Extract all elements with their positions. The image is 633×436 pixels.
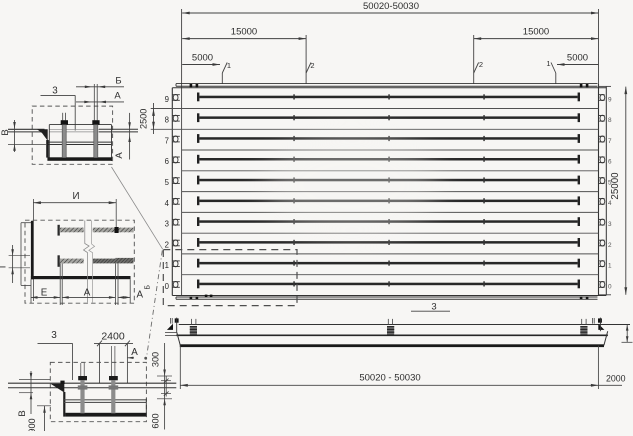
detail-1 rail lines left xyxy=(8,129,45,132)
plan right outer top tick xyxy=(599,85,612,87)
svg-text:1: 1 xyxy=(227,61,231,70)
svg-text:4: 4 xyxy=(165,199,170,208)
left edge tab row 6 xyxy=(172,157,180,163)
svg-text:В: В xyxy=(0,129,11,135)
detail-И dim А (middle) xyxy=(62,287,115,298)
svg-text:Г: Г xyxy=(0,263,9,268)
svg-text:7: 7 xyxy=(608,138,612,145)
svg-text:4: 4 xyxy=(608,200,612,207)
label 3 under plan xyxy=(411,302,450,313)
detail-1 left wedge xyxy=(37,129,49,157)
detail-2400 dim 900 (left) xyxy=(27,406,51,434)
left row number 9 xyxy=(165,95,169,104)
leader from detail A to callout xyxy=(112,167,163,249)
svg-text:3: 3 xyxy=(52,86,58,97)
right row number 3 xyxy=(608,221,612,228)
left edge tab row 9 xyxy=(172,94,180,100)
svg-text:А: А xyxy=(137,289,144,300)
detail-И left outline column xyxy=(21,223,31,286)
svg-text:0: 0 xyxy=(608,283,612,290)
right edge tab row 5 xyxy=(599,178,605,184)
svg-text:15000: 15000 xyxy=(523,27,549,38)
plan right border xyxy=(598,84,600,296)
section left end fitting xyxy=(167,318,179,332)
left edge tab row 0 xyxy=(172,281,180,287)
detail-1 beam body xyxy=(48,125,112,161)
detail-1 dim В (left) xyxy=(0,120,46,152)
row separator line 3 xyxy=(182,149,599,151)
detail-2400 base plate (thick) xyxy=(65,413,146,417)
lifting bolt marks on bottom band xyxy=(190,295,589,300)
detail-И middle bar (hatched) xyxy=(58,255,134,266)
section small left dim xyxy=(161,376,171,397)
right row number 6 xyxy=(608,159,612,166)
detail-1 dim Б xyxy=(76,76,124,89)
left row number 8 xyxy=(165,116,169,125)
joist bar row 8 xyxy=(197,113,580,122)
detail-И dashed boundary xyxy=(25,220,134,303)
left edge tab row 7 xyxy=(172,136,180,142)
detail-1 dim А (upper) xyxy=(76,91,124,104)
detail-1 base plate (thick) xyxy=(47,157,111,161)
right row number 5 xyxy=(608,179,612,186)
node mark 2 (right) xyxy=(474,35,483,84)
svg-text:И: И xyxy=(72,191,79,202)
svg-text:3: 3 xyxy=(608,221,612,228)
left edge tab row 3 xyxy=(172,219,180,225)
detail-2400 dim 300-600 column xyxy=(151,343,173,430)
detail-1 label 3 leader xyxy=(41,86,76,131)
left row number 0 xyxy=(165,282,170,291)
svg-text:3: 3 xyxy=(51,330,57,341)
svg-text:5000: 5000 xyxy=(192,52,213,63)
svg-text:1: 1 xyxy=(546,59,550,68)
right row number 7 xyxy=(608,138,612,145)
dimension 5000 left xyxy=(182,52,220,66)
detail-И bolt stems right pair xyxy=(115,263,118,305)
svg-text:900: 900 xyxy=(27,418,37,431)
section right end slope xyxy=(604,331,608,345)
dimension 15000 right xyxy=(474,27,599,40)
svg-text:В: В xyxy=(17,410,28,416)
right edge tab row 6 xyxy=(599,157,605,163)
svg-text:15000: 15000 xyxy=(231,27,257,38)
svg-text:2: 2 xyxy=(310,61,314,70)
joist bar row 4 xyxy=(197,196,580,205)
node mark 2 (left) xyxy=(306,35,314,84)
svg-text:1: 1 xyxy=(165,261,169,270)
scan fade overlay (plan middle) xyxy=(264,130,440,240)
detail-2400 dim В (left) xyxy=(17,371,50,417)
detail callout dashed box on plan xyxy=(163,250,297,306)
svg-text:300: 300 xyxy=(151,352,161,367)
dimension 15000 left xyxy=(182,27,306,40)
section bottom chord (thick) xyxy=(180,344,604,347)
detail-1 dim А (right side) xyxy=(114,113,131,160)
left row number 3 xyxy=(165,220,169,229)
plan bottom border xyxy=(172,295,606,297)
left row number 4 xyxy=(165,199,170,208)
joist bar row 5 xyxy=(197,176,580,185)
svg-text:А: А xyxy=(114,91,121,102)
right edge tab row 4 xyxy=(599,198,605,204)
node mark 1 (left) xyxy=(222,61,231,84)
right row number 4 xyxy=(608,200,612,207)
right edge tab row 3 xyxy=(599,219,605,225)
detail-2400 label А xyxy=(127,347,138,359)
right row number 1 xyxy=(608,263,612,270)
right edge tab row 1 xyxy=(599,261,605,267)
detail-И dim Г (left) xyxy=(0,245,30,283)
detail-2400 dashed boundary xyxy=(50,362,146,421)
svg-text:3: 3 xyxy=(165,220,169,229)
section left end slope xyxy=(177,331,181,345)
detail-1 rail through beam xyxy=(49,129,99,132)
detail-И ext left xyxy=(30,279,32,303)
svg-text:8: 8 xyxy=(165,116,169,125)
svg-text:А: А xyxy=(114,152,125,159)
joist bar row 9 xyxy=(197,93,580,102)
detail-2400 right edge xyxy=(145,399,147,417)
joist bar row 7 xyxy=(197,134,580,143)
row separator line 1 xyxy=(151,108,599,110)
row separator line 7 xyxy=(182,232,599,234)
left edge tab row 5 xyxy=(172,178,180,184)
plan right outer line xyxy=(605,86,607,294)
detail-И ext right xyxy=(129,279,131,303)
svg-text:Е: Е xyxy=(41,287,48,298)
detail-И break lines xyxy=(84,221,95,303)
svg-text:2500: 2500 xyxy=(139,109,149,129)
svg-text:А: А xyxy=(84,287,91,298)
dimension 2500 (left of plan) xyxy=(139,103,155,134)
detail-2400 left wedge xyxy=(51,381,66,417)
joist bar row 3 xyxy=(197,217,580,226)
detail-2400 rail lines xyxy=(8,383,176,388)
section clamp middle xyxy=(387,319,394,335)
left edge tab row 2 xyxy=(172,240,180,246)
svg-text:8: 8 xyxy=(608,117,612,124)
svg-text:2: 2 xyxy=(165,240,169,249)
svg-text:1: 1 xyxy=(608,263,612,270)
lifting bolt marks on top band xyxy=(190,84,589,87)
left row number 7 xyxy=(165,137,169,146)
svg-text:25000: 25000 xyxy=(610,172,621,200)
detail-2400 dim 2400 xyxy=(94,331,133,383)
left row number 6 xyxy=(165,157,169,166)
detail-1 rail lines right xyxy=(99,129,138,132)
right row number 2 xyxy=(608,242,612,249)
plan left border xyxy=(171,88,173,296)
right row number 9 xyxy=(608,96,612,103)
section clamp right xyxy=(580,319,587,335)
left row number 5 xyxy=(165,178,170,187)
svg-text:5: 5 xyxy=(165,178,170,187)
detail-И dim Е xyxy=(31,287,60,298)
svg-text:50020 - 50030: 50020 - 50030 xyxy=(359,373,420,384)
row separator line 2 xyxy=(151,128,599,130)
label 2000 xyxy=(606,373,626,383)
bolt 2 of detail-2400 xyxy=(109,346,119,413)
plan bottom edge band xyxy=(176,297,598,299)
joist bar row 1 xyxy=(197,259,580,268)
dimension 50020-50030 overall top xyxy=(182,1,598,14)
svg-text:9: 9 xyxy=(608,96,612,103)
svg-text:50020-50030: 50020-50030 xyxy=(363,1,419,12)
detail-2400 shelf lines xyxy=(64,400,146,403)
section left stub lines xyxy=(165,333,177,336)
right edge tab row 9 xyxy=(599,94,605,100)
dimension 25000 (right of plan) xyxy=(610,87,627,295)
right edge tab row 7 xyxy=(599,136,605,142)
svg-text:6: 6 xyxy=(165,157,169,166)
bolt 2 of detail-1 xyxy=(92,84,99,158)
bolt 1 of detail-1 xyxy=(61,113,68,158)
svg-text:600: 600 xyxy=(151,413,161,428)
left edge tab row 1 xyxy=(172,261,180,267)
dimension 5000 right xyxy=(557,52,599,66)
dash-dot leader callout to bottom detail xyxy=(144,251,162,360)
right row number 8 xyxy=(608,117,612,124)
extension line right x598 xyxy=(598,9,600,84)
svg-text:2: 2 xyxy=(479,60,483,69)
node mark 1 (right) xyxy=(546,59,555,84)
row separator line 6 xyxy=(182,211,599,213)
section mid line xyxy=(176,334,608,336)
detail-И dim И xyxy=(33,191,116,301)
plan top edge band xyxy=(172,84,606,88)
svg-text:2400: 2400 xyxy=(101,331,125,343)
joist bar row 6 xyxy=(197,155,580,164)
detail-2400 label 3 leader xyxy=(38,330,73,380)
left edge tab row 8 xyxy=(172,115,180,121)
svg-text:Б: Б xyxy=(145,285,152,290)
bolt 1 of detail-2400 xyxy=(78,363,88,413)
detail-1 dashed boundary xyxy=(32,106,112,164)
svg-text:А: А xyxy=(131,347,138,358)
section right end fitting xyxy=(593,318,605,332)
svg-text:0: 0 xyxy=(165,282,170,291)
right edge tab row 0 xyxy=(599,281,605,287)
plan right outer bottom tick xyxy=(599,294,612,296)
extension line left x182 xyxy=(181,9,183,296)
right row number 0 xyxy=(608,283,612,290)
svg-text:6: 6 xyxy=(608,159,612,166)
section top chord line xyxy=(179,324,630,326)
row separator line 8 xyxy=(182,253,599,255)
right edge tab row 8 xyxy=(599,115,605,121)
row separator line 5 xyxy=(182,191,599,193)
joist bar row 2 xyxy=(197,238,580,247)
svg-text:2000: 2000 xyxy=(606,373,626,383)
detail-И top bar (hatched) xyxy=(58,225,134,236)
row separator line 9 xyxy=(182,274,599,276)
svg-text:5000: 5000 xyxy=(567,52,588,63)
section clamp left xyxy=(190,319,197,335)
right edge tab row 2 xyxy=(599,240,605,246)
svg-text:2: 2 xyxy=(608,242,612,249)
detail-И bolt stems left pair xyxy=(60,263,62,305)
section height dim right xyxy=(622,325,633,343)
svg-text:7: 7 xyxy=(165,137,169,146)
detail-И thick angle edge xyxy=(31,221,131,279)
dimension 50020-50030 bottom xyxy=(180,346,622,389)
svg-text:Б: Б xyxy=(115,76,121,87)
left row number 1 xyxy=(165,261,169,270)
row separator line 4 xyxy=(182,170,599,172)
svg-text:9: 9 xyxy=(165,95,169,104)
left row number 2 xyxy=(165,240,169,249)
left edge tab row 4 xyxy=(172,198,180,204)
detail-И dim А-Б (right) xyxy=(118,285,152,301)
joist bar row 0 xyxy=(197,280,580,289)
